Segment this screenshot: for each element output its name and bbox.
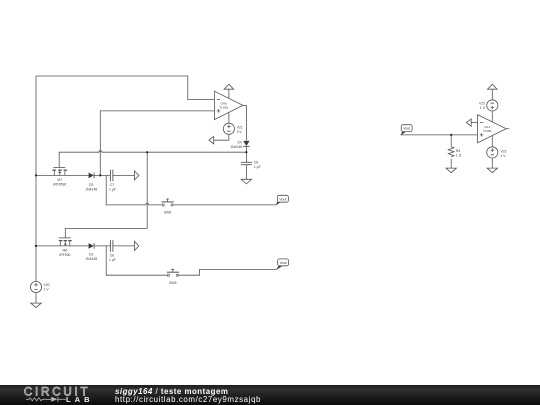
footer bar: [0, 385, 540, 405]
wire OA6 vminus: [228, 113, 230, 124]
node flag Vout top: [275, 195, 288, 205]
voltage source V22: [487, 100, 498, 111]
junction dot rail M6: [35, 245, 37, 247]
ground below V20: [31, 303, 41, 308]
ground below R4: [446, 168, 456, 173]
wire V23 to ground: [491, 158, 493, 168]
ground below V23: [487, 168, 497, 173]
wire R4 bottom: [450, 159, 452, 168]
voltage source V20: [30, 281, 41, 292]
wire C6 to arrow: [113, 245, 134, 247]
wire OA6 output: [243, 105, 247, 140]
wire C6 node down to SW6: [106, 246, 167, 275]
voltage source V21: [223, 123, 234, 134]
junction dot R4: [450, 134, 452, 136]
voltage source V23: [487, 147, 498, 158]
capacitor C7: [110, 170, 113, 182]
ground below C8: [241, 179, 251, 184]
svg-text:LAB: LAB: [66, 395, 94, 404]
switch SW6: [167, 269, 179, 276]
wire VCC arrow to V22: [491, 89, 493, 100]
wire OA7 minus to arrow: [471, 122, 478, 124]
capacitor C8: [241, 162, 252, 164]
op-amp OA6: [214, 91, 243, 119]
wire OA7 to V23: [491, 136, 493, 147]
diode D4: [243, 141, 249, 147]
wire V22 to OA7: [491, 111, 493, 122]
wire Vout3 to OA7 plus: [401, 134, 478, 136]
wire gate2 drop: [65, 152, 147, 238]
wire OA6 vplus: [228, 89, 230, 98]
mosfet M6: [59, 238, 72, 246]
wire OA7 output stub: [506, 128, 509, 130]
wire V21 to vee arrow: [214, 134, 229, 140]
junction dot D3 node: [99, 174, 101, 176]
node flag Vout right: [400, 125, 412, 136]
junction dot gate2: [146, 151, 148, 153]
wire D2 to C6: [94, 245, 110, 247]
vee arrow at OA7 minus: [466, 119, 471, 126]
node flag Vout bottom: [276, 259, 289, 270]
vcc arrow above OA6: [224, 84, 234, 89]
diode D3: [89, 173, 95, 179]
wire left rail: [35, 76, 37, 281]
capacitor C6: [110, 240, 113, 252]
junction dot D4-C8 net: [245, 151, 247, 153]
junction dot rail M7: [35, 174, 37, 176]
wire C7 node down to SW5: [106, 175, 162, 205]
wire C8 to ground: [245, 165, 247, 179]
wire top feedback: [36, 76, 214, 100]
op-amp OA7: [478, 115, 507, 143]
wire D3 to C7: [94, 174, 110, 176]
diode D2: [89, 243, 95, 249]
wire V20 to ground: [35, 293, 37, 304]
wire M6 row: [36, 245, 89, 247]
switch SW5: [162, 199, 174, 206]
wire SW6 to Vout: [178, 269, 276, 275]
wire SW5 to Vout: [173, 204, 276, 206]
wire OA6 plus input: [100, 111, 214, 175]
resistor R4: [448, 147, 454, 157]
mosfet M7: [52, 167, 67, 175]
wire net152 gate bus: [59, 151, 246, 168]
wire D4 to net152: [245, 147, 247, 163]
arrow right after C7: [134, 171, 139, 180]
arrow right after C6: [134, 241, 139, 250]
wire C7 to arrow: [113, 174, 134, 176]
wire R4 top: [450, 135, 452, 147]
vcc arrow above V22: [488, 84, 498, 89]
wire M7 row: [36, 174, 89, 176]
vee arrow left of V21: [209, 137, 214, 144]
